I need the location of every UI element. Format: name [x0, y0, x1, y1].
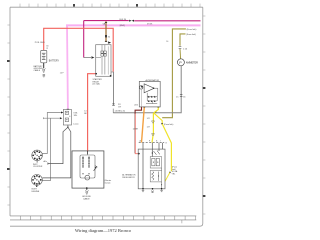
wire red alternator bat to regulator — [135, 107, 141, 114]
wire red relay to starter motor — [88, 74, 96, 152]
ignition switch S1 — [63, 110, 71, 126]
svg-text:SW.: SW. — [74, 115, 78, 117]
border frame left — [9, 7, 11, 216]
regulator box — [138, 149, 165, 189]
svg-text:BATTERY: BATTERY — [49, 59, 60, 62]
regulator resistor sub-box — [150, 171, 161, 182]
connector in ammeter wire — [180, 95, 183, 97]
svg-text:37 BK: 37 BK — [147, 24, 153, 26]
alternator stator circle — [140, 86, 143, 89]
svg-text:ENGINE: ENGINE — [32, 191, 40, 193]
starter solenoid inner box — [80, 155, 95, 178]
svg-text:POS. BUS: POS. BUS — [35, 42, 45, 44]
bottom scale band — [10, 216, 196, 220]
ruler tick dots top — [73, 4, 75, 7]
starter ground — [86, 187, 88, 189]
wire yellow alternator to bus junction — [154, 107, 159, 113]
wire orange alternator field — [142, 107, 145, 143]
wire crimson horizontal — [84, 20, 129, 22]
svg-text:CABLE: CABLE — [34, 69, 41, 72]
gauge connector G1 — [32, 150, 43, 161]
wire gauges to ignition switch — [42, 113, 61, 154]
wire gray bus ammeter to junction — [113, 66, 181, 113]
battery B1 — [41, 50, 47, 62]
svg-text:(Fuse link): (Fuse link) — [187, 29, 197, 31]
svg-text:14 BR: 14 BR — [133, 129, 139, 131]
olive fuse link A — [162, 29, 186, 118]
svg-text:(16 BK-LG): (16 BK-LG) — [115, 111, 125, 113]
relay coil stack — [96, 45, 105, 75]
svg-text:Lxxxx: Lxxxx — [73, 124, 78, 126]
wire red battery to starter relay — [44, 28, 114, 72]
starter diode arrow — [94, 167, 97, 170]
ammeter M1 — [177, 59, 184, 66]
solenoid coils — [83, 157, 89, 169]
svg-text:motor): motor) — [105, 182, 111, 185]
svg-text:ALTERNATOR: ALTERNATOR — [146, 79, 160, 82]
wire yellow down to regulator S — [152, 113, 153, 143]
olive fuse link B — [180, 34, 186, 46]
ruler tick dots right — [203, 87, 206, 89]
alternator triangle — [144, 84, 154, 93]
alternator diode rows — [146, 96, 157, 104]
wire down to gauge G2 — [42, 118, 50, 180]
ruler ticks right — [203, 16, 206, 214]
regulator pins — [143, 143, 162, 189]
wire ignition switch fork — [67, 125, 69, 127]
regulator right rail — [161, 168, 163, 171]
ruler ticks left — [7, 25, 10, 205]
svg-text:[654]: [654] — [120, 25, 125, 27]
svg-text:16: 16 — [166, 41, 168, 43]
bottom scale band cells — [20, 216, 195, 223]
wire crimson vertical to starter relay — [83, 21, 85, 58]
svg-text:30: 30 — [46, 45, 48, 47]
svg-text:A0x: A0x — [44, 160, 47, 163]
regulator ground terminals — [142, 188, 144, 190]
svg-text:CABLE: CABLE — [83, 197, 90, 200]
svg-text:CLUSTER: CLUSTER — [33, 166, 43, 168]
connector on crimson wire — [129, 20, 134, 22]
starter motor box — [72, 151, 104, 188]
border frame top — [10, 6, 203, 8]
wire yellow branch around regulator — [154, 113, 162, 124]
relay terminals — [95, 73, 97, 75]
svg-text:(37): (37) — [135, 105, 139, 107]
starter motor armature — [85, 175, 90, 180]
starter relay box — [96, 45, 111, 77]
svg-text:REGULATOR: REGULATOR — [122, 176, 135, 179]
svg-text:(16 GA): (16 GA) — [93, 83, 100, 86]
alternator box — [139, 81, 160, 107]
wire gray below relay — [113, 72, 115, 105]
earth marks below battery — [43, 74, 45, 78]
svg-text:(Fuse link): (Fuse link) — [186, 34, 196, 36]
connector arrow into relay top — [109, 42, 112, 44]
svg-text:Wiring diagram—1972 Bronco: Wiring diagram—1972 Bronco — [75, 228, 132, 233]
wire end marks — [112, 104, 115, 106]
fuse orange at relay top — [105, 21, 107, 42]
svg-text:(Fuse link): (Fuse link) — [164, 124, 174, 126]
svg-text:AMMETER: AMMETER — [186, 61, 198, 64]
border frame right+bottom — [10, 7, 203, 226]
regulator contacts — [154, 151, 160, 155]
wire arrow line to ignition switch — [42, 117, 44, 119]
regulator relay sub-box — [150, 157, 161, 168]
connector arrow into relay — [84, 57, 92, 59]
svg-text:GY: GY — [118, 106, 122, 108]
wire pink feed horizontal — [67, 25, 201, 27]
battery ground wire — [43, 63, 45, 69]
ruler tick dots left — [7, 60, 10, 62]
gauge connector G2 — [32, 175, 43, 186]
regulator connector row — [139, 142, 165, 144]
junction yellow/bus — [155, 111, 157, 113]
wire pink vertical to ignition switch — [66, 25, 69, 108]
connector in link B — [179, 47, 182, 49]
ruler ticks top — [20, 4, 200, 8]
svg-text:BLK 30: BLK 30 — [120, 19, 127, 21]
ground symbol battery — [42, 69, 46, 73]
